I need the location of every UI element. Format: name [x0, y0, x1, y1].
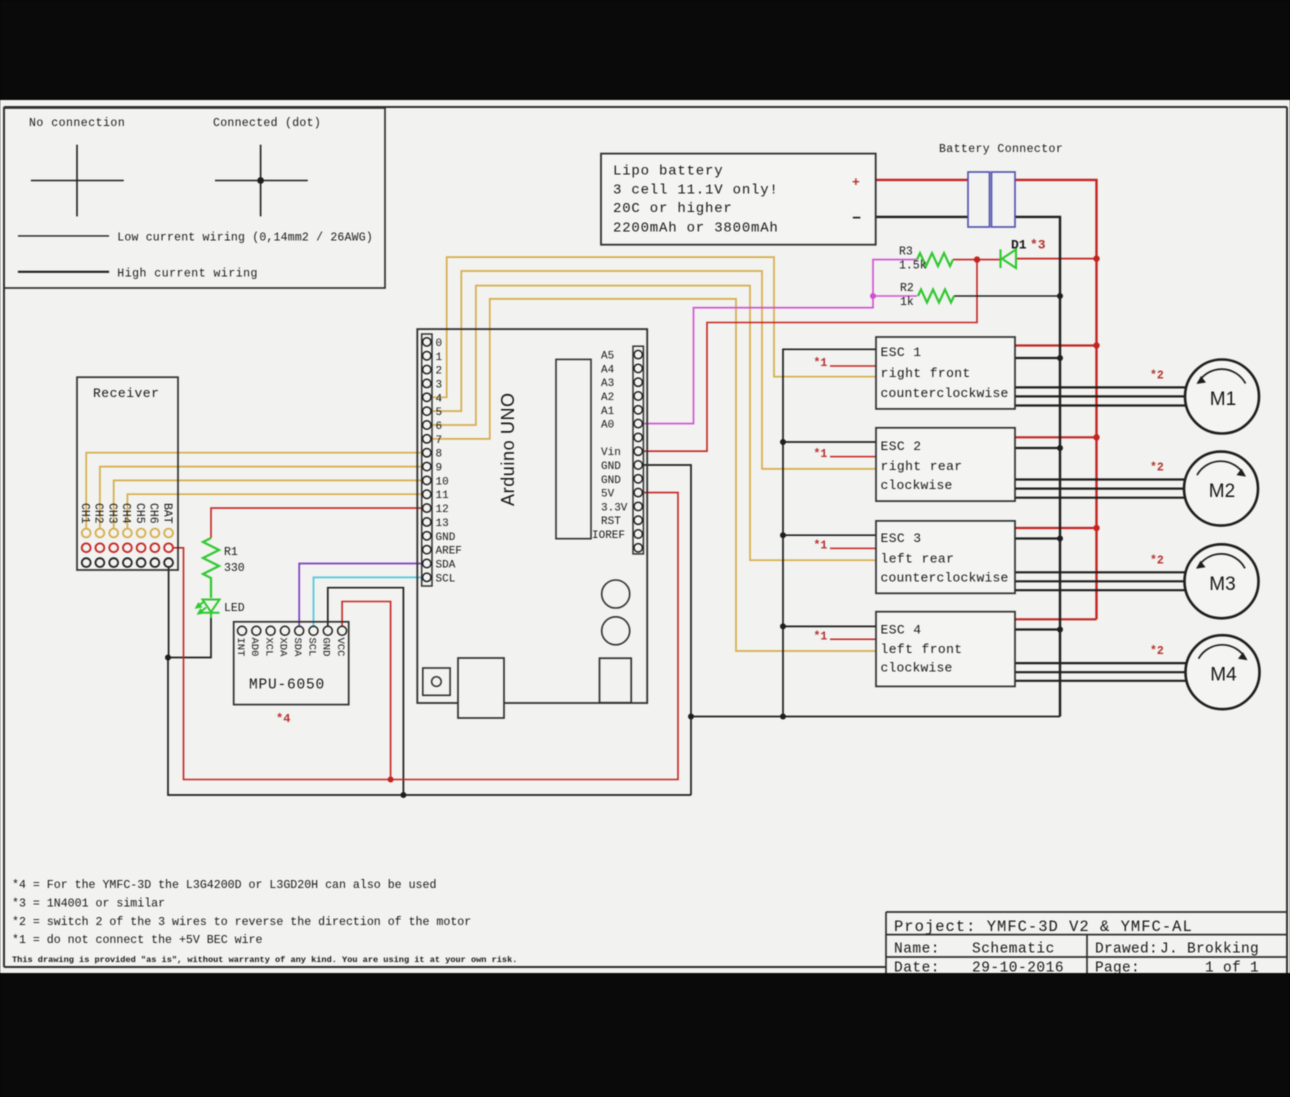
svg-text:5: 5	[436, 407, 443, 419]
svg-text:1k: 1k	[900, 296, 914, 309]
wire: Arduino pin 4 to ESC 1 signal	[431, 257, 876, 397]
battery connector J1	[968, 172, 1015, 227]
svg-text:GND: GND	[320, 638, 332, 657]
svg-text:Connected (dot): Connected (dot)	[213, 117, 321, 130]
junction: ground bus / R2	[1057, 293, 1063, 299]
svg-text:ESC 1: ESC 1	[881, 345, 922, 360]
svg-text:High current wiring: High current wiring	[117, 267, 258, 280]
wire: ESC to motor M1 three phase wires	[1015, 387, 1187, 405]
wire: ESC to motor M4 three phase wires	[1015, 663, 1187, 681]
Arduino UNO U1 outline	[417, 329, 647, 703]
svg-text:12: 12	[436, 504, 449, 516]
wire: ESC 4 - to ground bus	[1015, 628, 1060, 630]
svg-text:Drawed:: Drawed:	[1095, 942, 1158, 958]
wire: ESC to motor M3 three phase wires	[1015, 572, 1187, 590]
wire: bottom ground run to battery - bus	[691, 716, 1060, 718]
ESC 2 (right rear, clockwise)	[876, 428, 1015, 501]
svg-text:M1: M1	[1210, 389, 1236, 410]
wire: Arduino SCL to MPU SCL	[314, 577, 427, 626]
wire: Arduino GND down right side	[638, 465, 691, 795]
LED D2	[197, 600, 220, 619]
svg-text:clockwise: clockwise	[881, 478, 953, 493]
svg-text:1: 1	[436, 352, 443, 364]
junction: MPU GND / ground run	[400, 792, 406, 798]
title block	[886, 912, 1287, 973]
legend sample: low current wire	[18, 235, 109, 237]
junction: ground bus / ESC3	[1057, 536, 1063, 542]
svg-text:right rear: right rear	[881, 459, 963, 474]
Arduino left pin circles 0-13,GND,AREF,SDA,SCL	[423, 338, 431, 582]
Arduino right pin circles A5-A0, Vin, GND, GND, 5V, 3.3V, RST, IOREF	[634, 350, 642, 552]
svg-text:INT: INT	[234, 638, 246, 657]
svg-text:A0: A0	[601, 420, 614, 432]
motor M2	[1184, 452, 1258, 526]
svg-text:ESC 3: ESC 3	[881, 531, 922, 546]
svg-text:ESC 2: ESC 2	[881, 439, 922, 454]
wire: ESC to motor M2 three phase wires	[1015, 480, 1187, 498]
wire: ESC 2 - to ground bus	[1015, 447, 1060, 449]
wire: ESC 1 +5V BEC stub (not connected)	[830, 365, 876, 367]
svg-text:Low current wiring (0,14mm2 /: Low current wiring (0,14mm2 / 26AWG)	[117, 232, 373, 245]
svg-text:330: 330	[224, 562, 245, 575]
wire: red bus to ESC 2 +	[1015, 436, 1097, 438]
svg-text:*1: *1	[814, 540, 828, 553]
wire: Arduino pin 6 to ESC 3 signal	[431, 286, 876, 561]
Arduino IC socket rectangle	[556, 359, 591, 538]
legend sample: high current wire	[18, 271, 109, 273]
svg-text:No connection: No connection	[29, 117, 125, 130]
svg-text:*3 = 1N4001 or similar: *3 = 1N4001 or similar	[12, 898, 165, 911]
svg-text:6: 6	[436, 421, 443, 433]
MPU-6050 pin circles	[238, 626, 347, 635]
svg-text:*4: *4	[276, 712, 290, 726]
receiver pin row: ground (black)	[82, 558, 173, 567]
wire: LED cathode to ground node	[168, 618, 211, 658]
svg-text:A1: A1	[601, 406, 615, 418]
svg-text:R1: R1	[224, 546, 238, 559]
svg-text:LED: LED	[224, 602, 245, 615]
wire: ESC 3 - to ground bus	[1015, 537, 1060, 539]
ESC 3 (left rear, counterclockwise)	[876, 521, 1015, 593]
svg-text:Receiver: Receiver	[93, 386, 159, 401]
ESC 4 (left front, clockwise)	[876, 612, 1015, 687]
svg-text:AREF: AREF	[436, 546, 462, 558]
svg-text:4: 4	[436, 393, 443, 405]
svg-text:8: 8	[436, 449, 443, 461]
svg-text:*1: *1	[814, 630, 828, 643]
junction: 5V run / MPU VCC	[388, 777, 394, 783]
receiver pin row: 5V (red)	[82, 543, 173, 552]
wire: ESC 3 +5V BEC stub (not connected)	[830, 547, 876, 549]
wire: ESC 2 +5V BEC stub (not connected)	[830, 456, 876, 458]
junction: ground node below receiver	[165, 655, 171, 661]
svg-text:SCL: SCL	[305, 638, 317, 657]
wire: Arduino A0 to R3 (magenta)	[638, 260, 917, 424]
svg-text:2: 2	[436, 366, 443, 378]
motor M3	[1185, 544, 1259, 618]
svg-text:Battery Connector: Battery Connector	[939, 143, 1063, 156]
svg-text:BAT: BAT	[160, 503, 173, 524]
wire: Arduino pin 8 to receiver CH1	[86, 453, 427, 529]
svg-text:3 cell 11.1V only!: 3 cell 11.1V only!	[613, 182, 779, 198]
svg-text:counterclockwise: counterclockwise	[881, 386, 1009, 401]
wire: bottom ground run receiver/MPU	[168, 658, 691, 796]
svg-text:7: 7	[436, 435, 443, 447]
svg-text:*1 = do not connect the +5V BE: *1 = do not connect the +5V BEC wire	[12, 934, 263, 947]
svg-text:*1: *1	[814, 357, 828, 370]
svg-text:ESC 4: ESC 4	[881, 623, 922, 638]
svg-text:11: 11	[436, 490, 450, 502]
svg-text:CH2: CH2	[92, 503, 105, 524]
svg-text:R2: R2	[900, 282, 914, 295]
svg-text:M3: M3	[1209, 574, 1235, 595]
svg-text:13: 13	[436, 518, 449, 530]
junction: ground bus / ESC2	[1057, 445, 1063, 451]
MPU-6050 U2	[234, 622, 349, 705]
svg-text:MPU-6050: MPU-6050	[249, 678, 325, 694]
junction: red bus / ESC3	[1093, 525, 1099, 531]
svg-text:This drawing is provided "as i: This drawing is provided "as is", withou…	[12, 955, 517, 965]
svg-text:*2: *2	[1150, 369, 1164, 382]
wire: Arduino SDA to MPU SDA	[299, 564, 427, 627]
wire: battery - to connector	[876, 216, 968, 218]
svg-text:*2 = switch 2 of the 3 wires t: *2 = switch 2 of the 3 wires to reverse …	[12, 916, 471, 929]
wire: 5V run to MPU-6050 VCC	[342, 602, 391, 780]
wire: Arduino pin 5 to ESC 2 signal	[431, 271, 876, 469]
svg-text:CH4: CH4	[119, 503, 132, 524]
svg-text:0: 0	[436, 338, 443, 350]
svg-text:Vin: Vin	[601, 447, 621, 459]
svg-text:*2: *2	[1150, 554, 1164, 567]
junction: BEC gnd bus / ESC2	[780, 439, 786, 445]
wire: ESC 4 +5V BEC stub (not connected)	[830, 638, 876, 640]
resistor R2 1k	[918, 290, 954, 303]
svg-text:R3: R3	[899, 246, 913, 259]
svg-text:AD0: AD0	[248, 638, 260, 657]
junction: ground bus / ESC4	[1057, 627, 1063, 633]
Arduino mounting circle upper	[602, 580, 630, 608]
svg-text:XCL: XCL	[262, 638, 274, 657]
black letterbox top	[0, 0, 1290, 100]
svg-text:left rear: left rear	[881, 552, 955, 567]
svg-text:RST: RST	[601, 516, 621, 528]
svg-text:GND: GND	[601, 475, 621, 487]
svg-text:CH3: CH3	[106, 503, 119, 524]
wire: ESC 2 BEC ground	[783, 441, 876, 443]
svg-text:9: 9	[436, 463, 443, 475]
wire: Arduino 5V to receiver BAT +	[174, 493, 679, 780]
Arduino left pin header	[422, 334, 432, 586]
svg-text:VCC: VCC	[334, 638, 346, 657]
Arduino right pin header	[633, 346, 643, 554]
svg-text:Lipo battery: Lipo battery	[613, 164, 723, 180]
wire: R2 to ground bus	[954, 295, 1060, 297]
motor M4	[1186, 635, 1260, 709]
diode D1	[1001, 249, 1017, 268]
wire: Arduino pin 7 to ESC 4 signal	[431, 299, 876, 651]
wire: red bus to ESC 4 +	[1015, 618, 1097, 620]
svg-text:J. Brokking: J. Brokking	[1160, 942, 1259, 958]
junction: BEC gnd bus / bottom ground	[780, 714, 786, 720]
junction: magenta divider node	[870, 293, 876, 299]
svg-text:IOREF: IOREF	[592, 530, 625, 542]
wire: Arduino pin 10 to receiver CH3	[114, 480, 427, 529]
legend cross: no connection	[31, 145, 124, 217]
svg-text:10: 10	[436, 476, 449, 488]
svg-text:CH5: CH5	[133, 503, 146, 524]
svg-text:XDA: XDA	[277, 638, 289, 658]
Arduino power jack	[600, 658, 632, 703]
wire: divider node to R2 (magenta)	[873, 295, 917, 297]
wire: ESC 4 BEC ground	[783, 625, 876, 627]
svg-text:3.3V: 3.3V	[601, 502, 628, 514]
black letterbox bottom	[0, 973, 1290, 1097]
wire: red bus to ESC 1 +	[1015, 344, 1097, 346]
svg-text:Name:: Name:	[894, 942, 940, 958]
wire: MPU-6050 GND to ground run	[328, 588, 404, 795]
svg-text:*1: *1	[814, 448, 828, 461]
junction: red bus / D1	[1093, 255, 1099, 261]
motor M1	[1185, 360, 1259, 434]
legend junction dot	[257, 177, 264, 184]
svg-text:A4: A4	[601, 364, 615, 376]
svg-text:CH1: CH1	[78, 503, 91, 524]
Arduino USB connector	[458, 658, 504, 718]
resistor R1 330	[203, 538, 219, 598]
svg-text:*3: *3	[1030, 238, 1046, 253]
svg-text:1.5k: 1.5k	[899, 260, 927, 273]
wire: ESC 1 - to ground bus	[1015, 357, 1060, 359]
legend cross: connected with dot	[215, 145, 308, 217]
Arduino mounting circle lower	[602, 617, 630, 645]
wire: Arduino Vin to R3/D1 node	[638, 260, 977, 452]
svg-text:20C or higher: 20C or higher	[613, 201, 733, 217]
legend box	[4, 108, 385, 288]
svg-text:SDA: SDA	[291, 638, 303, 658]
svg-text:Arduino UNO: Arduino UNO	[498, 392, 518, 506]
svg-text:M2: M2	[1209, 481, 1235, 502]
wire: battery + bus from connector down to ESCs	[1015, 180, 1097, 619]
svg-text:D1: D1	[1011, 238, 1027, 253]
wire: battery + to connector	[876, 179, 968, 181]
svg-text:2200mAh or 3800mAh: 2200mAh or 3800mAh	[613, 220, 779, 236]
resistor R3 1.5k	[917, 253, 953, 266]
svg-text:+: +	[852, 175, 860, 190]
junction: R3 / D1 / Vin node	[974, 256, 980, 262]
wire: Arduino pin 11 to receiver CH4	[127, 494, 426, 529]
svg-text:CH6: CH6	[147, 503, 160, 524]
junction: BEC gnd bus / ESC3	[780, 532, 786, 538]
wire: red bus to ESC 3 +	[1015, 527, 1097, 529]
svg-text:3: 3	[436, 379, 443, 391]
svg-text:M4: M4	[1210, 665, 1237, 686]
svg-text:SCL: SCL	[436, 573, 456, 585]
svg-text:−: −	[852, 211, 861, 228]
svg-text:GND: GND	[601, 461, 621, 473]
Lipo battery BT1	[601, 154, 876, 245]
wire: Arduino pin 12 to R1	[211, 508, 427, 538]
junction: ground bus / ESC1	[1057, 355, 1063, 361]
svg-text:SDA: SDA	[436, 560, 456, 572]
svg-text:*2: *2	[1150, 462, 1164, 475]
Arduino reset button	[423, 668, 450, 695]
wire: D1 anode to battery + bus	[1016, 258, 1097, 260]
wire: R3 to D1 cathode	[953, 259, 1000, 261]
wire: ESC 1 BEC ground down left bus	[783, 349, 876, 716]
junction: red bus / ESC2	[1093, 434, 1099, 440]
receiver module	[77, 377, 178, 570]
ESC 1 (right front, counterclockwise)	[876, 337, 1015, 409]
junction: BEC gnd bus / ESC4	[780, 623, 786, 629]
drawing frame border	[4, 107, 1287, 973]
svg-text:clockwise: clockwise	[881, 661, 953, 676]
svg-text:GND: GND	[436, 532, 456, 544]
svg-text:right front: right front	[881, 366, 971, 381]
junction: Arduino GND / ESC ground run	[688, 714, 694, 720]
svg-text:*4 = For the YMFC-3D the L3G42: *4 = For the YMFC-3D the L3G4200D or L3G…	[12, 879, 436, 892]
wire: Arduino pin 9 to receiver CH2	[100, 467, 427, 529]
wire: receiver BAT - down	[168, 563, 170, 658]
svg-text:A2: A2	[601, 392, 614, 404]
svg-text:5V: 5V	[601, 489, 615, 501]
svg-text:left front: left front	[881, 642, 963, 657]
wire: ESC 3 BEC ground	[783, 534, 876, 536]
svg-text:counterclockwise: counterclockwise	[881, 571, 1009, 586]
svg-text:*2: *2	[1150, 645, 1164, 658]
receiver pin row: signal (orange)	[82, 529, 173, 538]
svg-text:Project: YMFC-3D V2 & YMFC-AL: Project: YMFC-3D V2 & YMFC-AL	[894, 918, 1193, 936]
svg-text:Schematic: Schematic	[972, 942, 1055, 958]
svg-text:A5: A5	[601, 351, 614, 363]
junction: red bus / ESC1	[1093, 342, 1099, 348]
wire: battery - bus down right side	[1015, 217, 1060, 717]
svg-text:A3: A3	[601, 378, 614, 390]
